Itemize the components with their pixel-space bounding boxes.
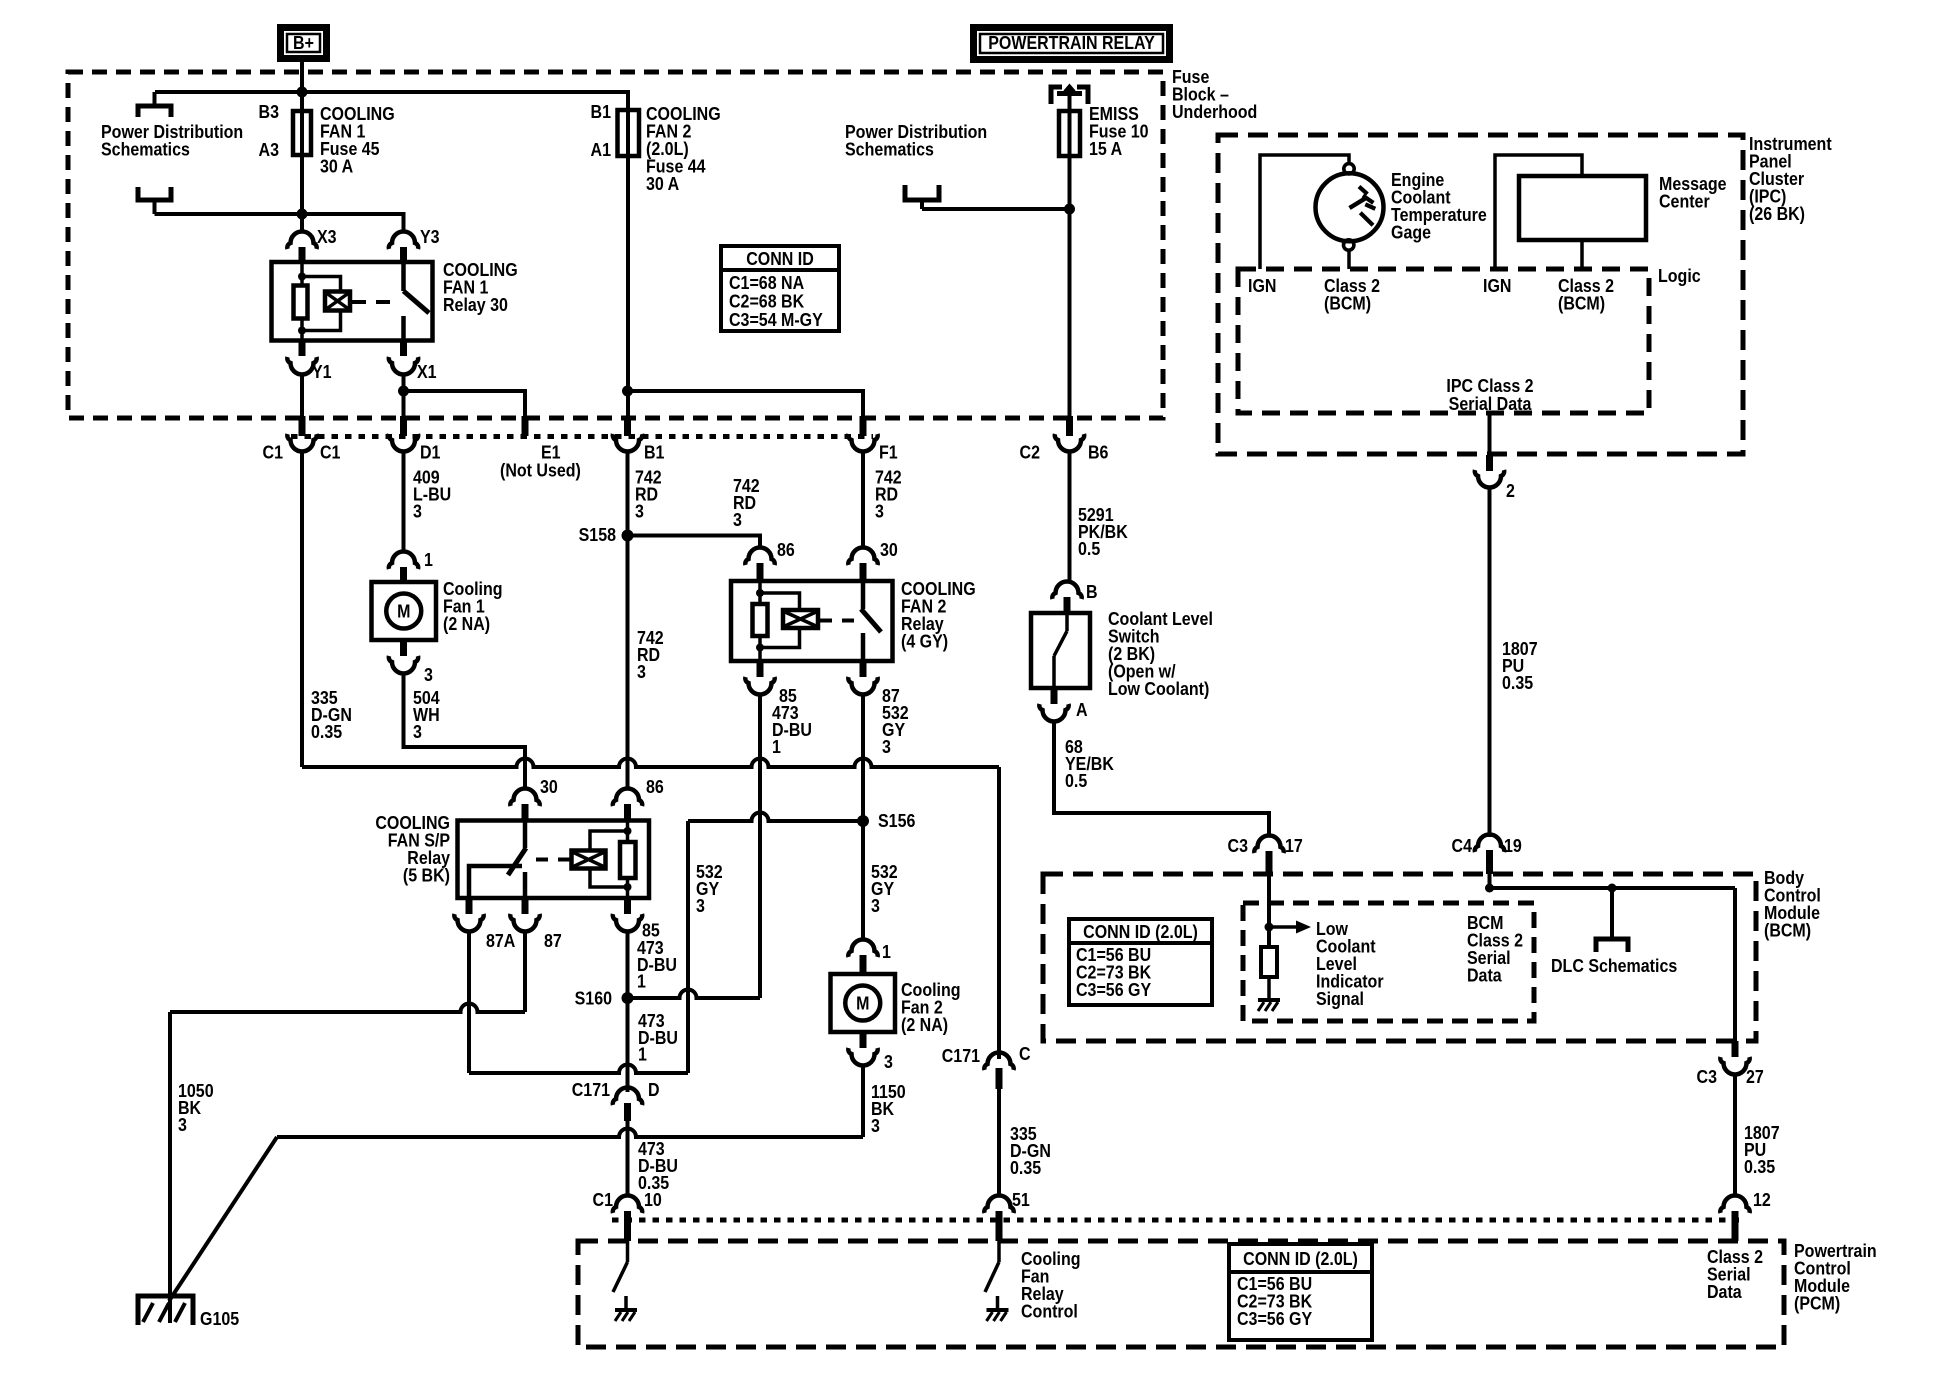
svg-text:CONN ID (2.0L): CONN ID (2.0L): [1243, 1248, 1358, 1269]
label Low Coolant Level Indicator Signal: [1316, 918, 1384, 1009]
svg-text:A1: A1: [591, 139, 612, 160]
wire C171 D to PCM C1: [626, 1121, 630, 1196]
svg-text:Serial Data: Serial Data: [1449, 393, 1532, 414]
wire 1050 BK to G105: [168, 1012, 172, 1323]
in-line connector boundary (dotted): [291, 434, 873, 439]
connector B1 (in-line): [613, 416, 642, 452]
pin label 19: [1504, 835, 1522, 856]
svg-text:87A: 87A: [486, 930, 515, 951]
wire label 409 L-BU 3: [413, 466, 451, 521]
coolant level switch blade: [1054, 613, 1067, 688]
svg-text:87: 87: [544, 930, 562, 951]
connector C171 C: [984, 1053, 1013, 1090]
pin label X1: [417, 361, 437, 382]
svg-text:3: 3: [635, 500, 644, 521]
wire 1807 PU to PCM: [1733, 1075, 1737, 1196]
wire label 742 RD 3 (branch): [733, 475, 760, 530]
svg-text:CONN ID: CONN ID: [746, 248, 814, 269]
fuse F44 COOLING FAN 2: [618, 110, 640, 156]
label COOLING FAN 1 Fuse 45 30 A: [320, 103, 395, 177]
svg-text:C3=56 GY: C3=56 GY: [1076, 979, 1152, 1000]
svg-text:0.35: 0.35: [1502, 672, 1534, 693]
CONN ID (2.0L) table (PCM): [1229, 1244, 1372, 1340]
off-page reference Power Distribution Schematics (left) text: [101, 121, 243, 160]
pin label Y3: [420, 226, 440, 247]
motor M Cooling Fan 2 (2 NA): [831, 974, 896, 1032]
node splice S156: [857, 815, 869, 827]
svg-text:(2 NA): (2 NA): [901, 1014, 948, 1035]
connector C4-19 (BCM): [1475, 835, 1504, 875]
IPC logic dashed box: [1238, 269, 1649, 413]
connector C171 D: [613, 1088, 642, 1122]
svg-text:1: 1: [882, 941, 891, 962]
svg-text:Schematics: Schematics: [845, 138, 934, 159]
svg-text:3: 3: [882, 736, 891, 757]
svg-text:X3: X3: [317, 226, 337, 247]
svg-text:3: 3: [178, 1114, 187, 1135]
pin label C1 left: [263, 441, 284, 462]
svg-text:A3: A3: [259, 139, 279, 160]
label Message Center: [1659, 173, 1727, 212]
wire label 1150 BK 3: [871, 1081, 906, 1136]
svg-text:(Not Used): (Not Used): [500, 459, 581, 480]
connector X3: [287, 232, 316, 262]
wire B6 to switch: [1068, 452, 1072, 581]
off-page reference bracket bottom-left: [138, 187, 171, 214]
svg-text:(BCM): (BCM): [1764, 919, 1811, 940]
wire power dist to EMISS: [922, 207, 1070, 211]
svg-text:G105: G105: [200, 1308, 240, 1329]
svg-text:Relay 30: Relay 30: [443, 294, 508, 315]
connector 30 (fan2 relay): [848, 548, 877, 582]
wire 17 into BCM: [1267, 874, 1271, 947]
pin label C4: [1452, 835, 1473, 856]
off-page reference DLC bracket: [1596, 888, 1628, 952]
wire B1 to S158: [626, 452, 630, 534]
wire S/P 85 to S160: [626, 932, 630, 998]
wire 19 into BCM bus: [1488, 874, 1492, 888]
label IGN (gauge): [1248, 275, 1276, 296]
wire fuse45 output: [300, 155, 304, 233]
wire label 1807 PU 0.35 (upper): [1502, 638, 1538, 693]
svg-text:3: 3: [413, 721, 422, 742]
svg-text:Logic: Logic: [1658, 265, 1701, 286]
relay K COOLING FAN S/P Relay (5 BK) box: [458, 821, 650, 899]
svg-text:(BCM): (BCM): [1558, 292, 1605, 313]
pin label X3: [317, 226, 337, 247]
pin label 87A: [486, 930, 515, 951]
svg-text:C171: C171: [572, 1079, 611, 1100]
svg-text:C3=56 GY: C3=56 GY: [1237, 1308, 1313, 1329]
connector C1-10 (PCM): [613, 1196, 642, 1242]
pin label 27: [1746, 1066, 1764, 1087]
motor M Cooling Fan 1 (2 NA): [372, 582, 437, 640]
wire label 473 D-BU 1 (above S160): [637, 937, 677, 992]
svg-text:27: 27: [1746, 1066, 1764, 1087]
label Powertrain Control Module (PCM): [1794, 1240, 1877, 1314]
label Class 2 Serial Data (PCM): [1707, 1246, 1763, 1302]
pin label 1 (fan1): [424, 549, 433, 570]
svg-text:C3=54 M-GY: C3=54 M-GY: [729, 309, 823, 330]
svg-text:3: 3: [637, 661, 646, 682]
svg-text:D1: D1: [420, 441, 441, 462]
pin label 85 (S/P): [642, 919, 660, 940]
label S158: [579, 524, 617, 545]
svg-text:Data: Data: [1707, 1281, 1742, 1302]
wire D1 to fan1 motor (409 L-BU): [402, 452, 406, 553]
wire S/P 87A to 532 GY net: [469, 932, 688, 1073]
gauge terminal circle bottom: [1344, 240, 1354, 250]
svg-text:(BCM): (BCM): [1324, 292, 1371, 313]
connector B6 (in-line): [1055, 416, 1084, 452]
svg-text:0.35: 0.35: [1010, 1157, 1042, 1178]
connector 3 (fan1 motor): [389, 640, 418, 674]
svg-text:3: 3: [413, 500, 422, 521]
node junction B+/bus: [297, 87, 308, 98]
wire IGN to gauge: [1260, 155, 1349, 269]
wire 1807 PU to BCM: [1488, 488, 1492, 837]
connector Y1: [287, 341, 316, 375]
off-page reference bracket middle: [905, 185, 939, 209]
svg-text:30: 30: [880, 539, 898, 560]
connector C3-27 (BCM out): [1720, 1041, 1749, 1075]
label Cooling Fan 2 (2 NA): [901, 979, 961, 1035]
wire label 473 D-BU 0.35 and 10: [638, 1138, 678, 1193]
svg-text:Underhood: Underhood: [1172, 101, 1257, 122]
label G105: [200, 1308, 240, 1329]
pin label B1: [644, 441, 665, 462]
wire label 1050 BK 3: [178, 1080, 214, 1135]
svg-text:M: M: [397, 600, 410, 621]
svg-text:C1: C1: [320, 441, 341, 462]
wire fuse44 to B1 connector: [626, 156, 630, 436]
svg-text:Center: Center: [1659, 190, 1710, 211]
wire 335 D-GN horizontal run with hops: [302, 759, 999, 767]
svg-text:C1: C1: [263, 441, 284, 462]
pin label E1 (Not Used): [500, 441, 581, 480]
svg-text:Schematics: Schematics: [101, 138, 190, 159]
connector 87 (fan2 relay): [848, 661, 877, 695]
label COOLING FAN 1 Relay 30: [443, 259, 518, 315]
svg-text:1: 1: [637, 971, 646, 992]
pin label 85 (fan2): [779, 685, 797, 706]
node splice S158: [622, 530, 634, 542]
svg-text:86: 86: [646, 776, 664, 797]
pin label B3: [259, 101, 279, 122]
relay fan1 armature link dashes: [352, 300, 398, 304]
pin label 86 (S/P): [646, 776, 664, 797]
pin label 30 (fan2): [880, 539, 898, 560]
svg-text:86: 86: [777, 539, 795, 560]
pin label D: [648, 1079, 660, 1100]
svg-text:30: 30: [540, 776, 558, 797]
svg-text:B1: B1: [644, 441, 665, 462]
svg-text:51: 51: [1012, 1189, 1030, 1210]
pin label 12: [1753, 1189, 1771, 1210]
node junction EMISS feed: [1064, 204, 1075, 215]
label EMISS Fuse 10 15 A: [1089, 103, 1149, 159]
in-line connector boundary bottom (dotted): [612, 1218, 1745, 1223]
connector A (switch): [1039, 688, 1068, 722]
label Cooling Fan Relay Control: [1021, 1248, 1081, 1322]
label IGN (message center): [1483, 275, 1511, 296]
wire EMISS fuse output to B6: [1068, 156, 1072, 436]
svg-text:19: 19: [1504, 835, 1522, 856]
node junction fuse45/X3/Y3 bus: [297, 209, 308, 220]
wire S158 to fan2 relay 86: [628, 536, 761, 550]
wire fuse44 branch to F1: [628, 391, 864, 416]
connector D1 (in-line): [389, 416, 418, 452]
svg-text:B1: B1: [591, 101, 612, 122]
wire B+ drop: [300, 62, 304, 111]
svg-text:F1: F1: [879, 441, 898, 462]
label Body Control Module (BCM): [1764, 867, 1821, 941]
label Instrument Panel Cluster (IPC) (26 BK): [1749, 133, 1832, 224]
pin label A1: [591, 139, 612, 160]
connector 87 (S/P relay): [510, 898, 539, 932]
relay fan1 coil circuit: [294, 262, 351, 341]
connector 85 (S/P relay): [613, 898, 642, 932]
BCM dashed box: [1043, 874, 1756, 1041]
pin label A: [1076, 699, 1088, 720]
svg-text:12: 12: [1753, 1189, 1771, 1210]
wire label 504 WH 3: [413, 687, 440, 742]
wire label 1807 PU 0.35 (lower): [1744, 1122, 1780, 1177]
wire gauge to class2: [1347, 251, 1351, 270]
connector 86 (fan2 relay): [745, 548, 774, 582]
connector 1 (fan1 motor): [389, 552, 418, 583]
svg-text:(2 NA): (2 NA): [443, 613, 490, 634]
fuse block underhood dashed boundary: [68, 72, 1163, 418]
pin label Y1: [312, 361, 332, 382]
wire X1 to D1: [402, 375, 406, 416]
ground (PCM internal right): [987, 1296, 1009, 1321]
pin label C1 right: [320, 441, 341, 462]
svg-text:0.5: 0.5: [1078, 538, 1101, 559]
label Class 2 (BCM) (gauge): [1324, 275, 1380, 314]
coolant level switch box: [1031, 613, 1090, 688]
pin label B: [1086, 581, 1098, 602]
svg-text:0.35: 0.35: [311, 721, 343, 742]
relay fan2 coil circuit: [753, 581, 819, 661]
wire F1 to fan2 relay 30: [861, 452, 865, 549]
connector 87A (S/P relay): [454, 898, 483, 932]
svg-text:3: 3: [871, 895, 880, 916]
connector C3-17 (BCM): [1254, 836, 1283, 875]
svg-text:Low Coolant): Low Coolant): [1108, 678, 1209, 699]
node junction low coolant signal: [1265, 923, 1274, 932]
ground (BCM internal): [1258, 977, 1280, 1011]
wire fan1 motor to S/P 30: [404, 674, 526, 789]
ground G105 symbol: [138, 1296, 193, 1325]
label Coolant Level Switch (2 BK) (Open w/ Low Coolant): [1108, 608, 1213, 699]
relay K COOLING FAN 1 Relay 30 box: [272, 262, 433, 341]
wire fan2 motor ground run: [277, 1066, 863, 1137]
wire label 742 RD 3 (down): [637, 627, 664, 682]
connector 3 (fan2 motor): [848, 1032, 877, 1066]
svg-text:Signal: Signal: [1316, 988, 1364, 1009]
svg-text:S158: S158: [579, 524, 617, 545]
wire X1 branch to E1: [404, 391, 526, 416]
gauge terminal circle top: [1344, 164, 1354, 174]
wire 335 D-GN drop to C171 C: [997, 767, 1001, 1059]
svg-text:(26 BK): (26 BK): [1749, 203, 1805, 224]
svg-text:3: 3: [875, 500, 884, 521]
wire IGN to message center: [1495, 155, 1582, 269]
bus bar tap symbol above EMISS fuse: [1051, 84, 1088, 105]
wire C1 down (335 D-GN): [300, 452, 304, 767]
pin label 51: [1012, 1189, 1030, 1210]
node junction BCM serial 1: [1485, 884, 1494, 893]
node splice S160: [622, 992, 634, 1004]
wire S160 to fan2-85 with hop: [628, 990, 761, 999]
wire label 532 GY 3 (left): [696, 861, 723, 916]
label DLC Schematics: [1551, 955, 1677, 976]
relay fan1 switch: [404, 262, 430, 341]
wire C171 C to PCM 51: [997, 1089, 1001, 1196]
wire BCM to C3-27: [1733, 888, 1737, 1044]
label Class 2 (BCM) (message center): [1558, 275, 1614, 314]
CONN ID (2.0L) table (BCM): [1069, 919, 1212, 1005]
off-page reference bracket top-left: [138, 92, 171, 117]
label S156: [878, 810, 915, 831]
relay fan2 armature link dashes: [820, 619, 855, 623]
svg-text:C2: C2: [1020, 441, 1040, 462]
svg-text:(5 BK): (5 BK): [403, 864, 450, 885]
wire bus to Y3: [155, 214, 404, 232]
svg-text:3: 3: [424, 664, 433, 685]
label BCM Class 2 Serial Data: [1467, 912, 1523, 986]
svg-text:B6: B6: [1088, 441, 1108, 462]
power node POWERTRAIN RELAY box: [970, 24, 1173, 63]
wire label 68 YE/BK 0.5: [1065, 736, 1114, 791]
wire message center to class2: [1580, 240, 1584, 269]
svg-text:17: 17: [1285, 835, 1303, 856]
wire top bus to fuse 44: [155, 92, 628, 110]
svg-text:C3: C3: [1228, 835, 1248, 856]
wire IPC serial data out: [1488, 413, 1492, 453]
wire fan2-85 to S160 corner: [758, 695, 762, 998]
wire 532 GY to S156 with hop: [688, 813, 863, 822]
wire label 335 D-GN 0.35 (lower): [1010, 1123, 1051, 1178]
svg-text:X1: X1: [417, 361, 437, 382]
pin label B1 (fuse): [591, 101, 612, 122]
BCM low coolant indicator dashed box: [1243, 903, 1534, 1021]
svg-text:M: M: [856, 992, 869, 1013]
connector 51 (PCM): [984, 1196, 1013, 1242]
svg-text:3: 3: [696, 895, 705, 916]
label COOLING FAN S/P Relay (5 BK): [375, 812, 450, 886]
wire S158 down to S/P 86: [626, 536, 630, 790]
wire diagonal to G105: [169, 1137, 277, 1301]
arrow low coolant level indicator signal: [1269, 921, 1311, 934]
svg-text:C171: C171: [942, 1045, 981, 1066]
pin label 3 (fan2 motor): [884, 1051, 893, 1072]
label Engine Coolant Temperature Gage: [1391, 169, 1487, 243]
svg-text:A: A: [1076, 699, 1088, 720]
svg-text:1: 1: [772, 736, 781, 757]
pin label C1 (10): [593, 1189, 614, 1210]
pin label 10: [644, 1189, 662, 1210]
svg-text:C4: C4: [1452, 835, 1473, 856]
connector E1 not used (pin only): [522, 416, 529, 436]
pin label C171 (D): [572, 1079, 611, 1100]
connector X1: [389, 341, 418, 375]
pin label 3 (fan1): [424, 664, 433, 685]
pin label 87 (fan2): [882, 685, 900, 706]
relay K COOLING FAN 2 Relay (4 GY) box: [731, 581, 893, 661]
label IPC Class 2 Serial Data: [1446, 375, 1533, 414]
svg-text:1: 1: [424, 549, 433, 570]
pin label 30 (S/P): [540, 776, 558, 797]
svg-text:1: 1: [638, 1044, 647, 1065]
connector B (switch): [1052, 582, 1081, 614]
svg-text:Y1: Y1: [312, 361, 332, 382]
connector C1 (in-line): [287, 416, 316, 452]
connector 12 (PCM): [1720, 1196, 1749, 1242]
wire label 532 GY 3 (fan2 87): [882, 702, 909, 757]
wire label 532 GY 3 (right): [871, 861, 898, 916]
node junction X1/E1 branch: [398, 386, 409, 397]
wire Y1 to C1: [300, 375, 304, 416]
svg-text:15 A: 15 A: [1089, 138, 1122, 159]
fuse F10 EMISS: [1059, 87, 1080, 156]
fuse F45 COOLING FAN 1: [293, 111, 311, 155]
pin label 86 (fan2): [777, 539, 795, 560]
label COOLING FAN 2 (2.0L) Fuse 44 30 A: [646, 103, 721, 194]
wire S160 to C171 D: [626, 998, 630, 1092]
svg-text:C: C: [1019, 1043, 1031, 1064]
svg-text:POWERTRAIN RELAY: POWERTRAIN RELAY: [988, 32, 1155, 53]
label COOLING FAN 2 Relay (4 GY): [901, 578, 976, 652]
svg-text:Y3: Y3: [420, 226, 440, 247]
message center box: [1519, 176, 1646, 240]
pin label 2: [1506, 480, 1515, 501]
svg-text:B3: B3: [259, 101, 279, 122]
connector 2 (IPC): [1475, 455, 1504, 488]
pin label F1: [879, 441, 898, 462]
connector 1 (fan2 motor): [848, 940, 877, 974]
connector 30 (S/P relay): [510, 789, 539, 821]
wire 532 GY vertical: [686, 821, 690, 1073]
pin label C2: [1020, 441, 1040, 462]
svg-text:B+: B+: [293, 32, 314, 53]
wire fan2-87 through S156 to motor: [861, 695, 865, 941]
svg-text:C3: C3: [1697, 1066, 1717, 1087]
connector 86 (S/P relay): [613, 789, 642, 821]
svg-text:C1: C1: [593, 1189, 614, 1210]
IPC dashed box: [1218, 135, 1743, 454]
svg-text:(4 GY): (4 GY): [901, 630, 948, 651]
PCM driver switch (cooling fan relay control right): [985, 1241, 999, 1292]
svg-text:Data: Data: [1467, 964, 1502, 985]
svg-text:S160: S160: [575, 987, 612, 1008]
relay fan2 switch: [861, 581, 881, 661]
wire label 473 D-BU 1 (fan2 85): [772, 702, 812, 757]
ground (PCM internal left): [615, 1296, 637, 1321]
svg-text:3: 3: [871, 1115, 880, 1136]
svg-text:30 A: 30 A: [646, 173, 679, 194]
svg-text:IGN: IGN: [1483, 275, 1511, 296]
pin label C171 (C): [942, 1045, 981, 1066]
relay S/P switch: [469, 821, 526, 899]
svg-text:10: 10: [644, 1189, 662, 1210]
svg-text:2: 2: [1506, 480, 1515, 501]
svg-text:S156: S156: [878, 810, 915, 831]
wire label 5291 PK/BK 0.5: [1078, 504, 1128, 559]
wire label 473 D-BU 1 (below S160): [638, 1010, 678, 1065]
label Fuse Block - Underhood: [1172, 66, 1257, 122]
